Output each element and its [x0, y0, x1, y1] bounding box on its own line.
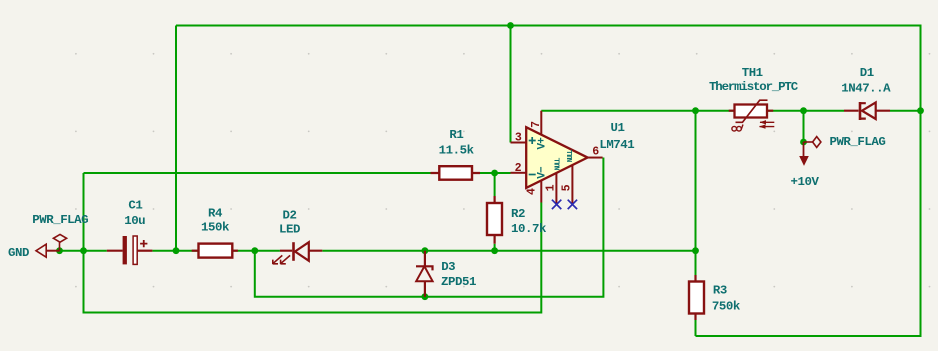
op-amp U1 body	[526, 127, 587, 188]
svg-text:10.7k: 10.7k	[511, 222, 547, 236]
pin name + (pin3)	[529, 137, 536, 144]
junction mid rail / D3 cathode	[422, 247, 429, 254]
wire from top-rail junction down to op-amp pin 3	[510, 26, 512, 143]
wire R2 top stub	[494, 173, 496, 196]
junction R1 output / pin2 / R2 top	[491, 170, 498, 177]
svg-text:5: 5	[561, 184, 574, 191]
wire from R3 bottom to bottom-right rail	[695, 320, 697, 336]
no-connect X on pin 5	[568, 200, 577, 209]
zener diode D3	[416, 251, 433, 297]
svg-text:TH1: TH1	[742, 66, 763, 80]
wire top rail with right rail and bottom-right rail	[176, 26, 921, 337]
svg-text:2: 2	[515, 162, 522, 175]
svg-text:LM741: LM741	[599, 138, 634, 152]
wire from D2 junction down, along y=296.7, up to op-amp pin 6	[255, 158, 604, 297]
capacitor C1	[107, 236, 153, 264]
thermistor TH1	[729, 100, 775, 131]
pin name - (pin2)	[529, 174, 536, 176]
op-amp U1 pin 4 (V-)	[540, 180, 542, 202]
resistor R3	[689, 275, 704, 320]
svg-text:3: 3	[515, 132, 522, 145]
svg-text:NULL: NULL	[567, 150, 575, 163]
svg-text:6: 6	[592, 145, 599, 158]
wire V+ rail from op-amp pin 7 to right rail	[541, 110, 920, 112]
svg-text:4: 4	[525, 188, 538, 195]
svg-text:10u: 10u	[124, 214, 145, 228]
svg-text:R4: R4	[208, 206, 223, 220]
wire from V+ rail down through mid rail to R3 top	[695, 111, 697, 275]
svg-text:NULL: NULL	[555, 158, 563, 171]
svg-text:ZPD51: ZPD51	[441, 275, 476, 289]
junction mid rail / R3 column	[692, 247, 699, 254]
wire vertical from top rail down to mid rail at x=176	[175, 26, 177, 251]
svg-text:Thermistor_PTC: Thermistor_PTC	[709, 80, 799, 94]
svg-text:150k: 150k	[201, 221, 230, 235]
junction V+ rail / R3 column	[692, 107, 699, 114]
svg-text:D3: D3	[441, 260, 455, 274]
wire R2 bottom stub	[494, 244, 496, 251]
junction top rail / pin3 drop	[507, 22, 514, 29]
svg-text:GND: GND	[8, 246, 29, 260]
op-amp U1 pin 3 (non-inverting input)	[511, 142, 527, 144]
wire stub from V+ rail down to PWR_FLAG/+10V node	[803, 111, 805, 142]
svg-text:R1: R1	[449, 128, 463, 142]
power flag PWR_FLAG (left)	[53, 234, 66, 250]
svg-text:11.5k: 11.5k	[439, 144, 475, 158]
resistor R1	[431, 166, 481, 180]
op-amp U1 pin 5 (null)	[571, 165, 573, 204]
junction GND / PWR_FLAG	[56, 247, 63, 254]
svg-text:V−: V−	[536, 166, 548, 179]
junction V+ rail / +10V stub	[800, 107, 807, 114]
svg-text:1: 1	[544, 184, 557, 191]
power flag PWR_FLAG (right)	[804, 137, 821, 148]
svg-text:D2: D2	[283, 208, 297, 222]
svg-text:LED: LED	[279, 223, 300, 237]
junction mid rail / D2 anode drop	[251, 247, 258, 254]
wire left box: down x=83.5, bottom y=312.5, up to op-amp pin 4	[84, 173, 542, 313]
junction +10V node with PWR_FLAG	[800, 139, 807, 146]
svg-text:+10V: +10V	[791, 175, 820, 189]
diode D1	[844, 102, 890, 120]
svg-text:PWR_FLAG: PWR_FLAG	[829, 135, 885, 149]
junction D3 anode / lower rail	[422, 293, 429, 300]
junction V+ rail / right rail corner	[917, 107, 924, 114]
resistor R2	[487, 196, 502, 244]
wire mid rail y=250.7	[60, 250, 696, 252]
svg-text:D1: D1	[860, 66, 874, 80]
wire R1 row y=173	[84, 172, 511, 174]
op-amp U1 pin 7 (V+)	[540, 111, 542, 135]
LED D2	[273, 242, 323, 264]
resistor R4	[192, 244, 238, 258]
no-connect X on pin 1	[552, 200, 561, 209]
svg-text:R3: R3	[713, 284, 727, 298]
svg-text:7: 7	[530, 121, 543, 128]
op-amp U1 pin 1 (null)	[555, 173, 557, 204]
junction mid rail / R2 bottom	[491, 247, 498, 254]
op-amp U1 pin 6 (output)	[588, 157, 603, 159]
junction mid rail / top rail column	[173, 247, 180, 254]
ground symbol GND	[36, 244, 60, 257]
op-amp U1 pin 2 (inverting input)	[511, 172, 527, 174]
svg-text:V+: V+	[536, 137, 548, 150]
svg-text:R2: R2	[511, 207, 525, 221]
svg-text:1N47..A: 1N47..A	[841, 81, 891, 95]
svg-text:U1: U1	[611, 121, 625, 135]
junction mid rail / left box column	[80, 247, 87, 254]
svg-text:750k: 750k	[712, 299, 741, 313]
svg-text:PWR_FLAG: PWR_FLAG	[32, 213, 88, 227]
power symbol +10V (arrow down)	[799, 142, 809, 166]
svg-text:C1: C1	[128, 198, 142, 212]
